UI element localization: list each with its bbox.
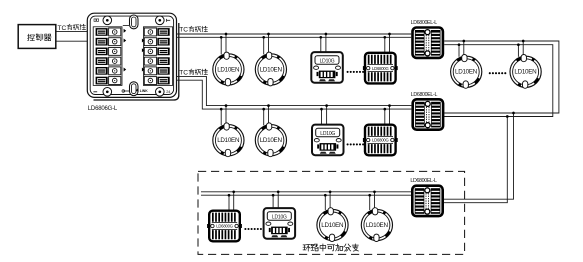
svg-text:LD6800EL-L: LD6800EL-L bbox=[411, 20, 438, 26]
wire: riser D6 left bbox=[263, 109, 265, 125]
junction dot (D5 right) bbox=[225, 104, 228, 107]
manual call point LD10G (CP2) bbox=[312, 125, 344, 156]
wire: drop to B1 right bbox=[389, 34, 391, 53]
wire: riser D5 right bbox=[225, 106, 227, 126]
terminal box LD6806G-L bbox=[87, 13, 179, 100]
wire: controller to terminal box, upper bbox=[56, 31, 87, 33]
continuation dots (row2) bbox=[347, 143, 365, 145]
wire: riser B2 right bbox=[389, 106, 391, 125]
smoke detector LD10EN (D7) bbox=[317, 208, 348, 242]
junction dot (B2 right) bbox=[388, 104, 391, 107]
smoke detector LD10EN (D2) bbox=[255, 52, 286, 86]
wire: row1 bus lower bbox=[177, 36, 412, 38]
svg-text:24: 24 bbox=[166, 90, 170, 94]
junction dot (D3 left) bbox=[458, 43, 461, 46]
junction dot (CP2 left) bbox=[320, 108, 323, 111]
junction dot (CP3 right) bbox=[277, 190, 280, 193]
junction dot (B1 left) bbox=[383, 36, 386, 39]
svg-text:TC: TC bbox=[179, 27, 188, 34]
wire: riser D6 right bbox=[268, 106, 270, 126]
isolator module LD6800G (B2) bbox=[363, 125, 398, 156]
manual call point LD10G (CP1) bbox=[311, 52, 343, 83]
junction dot (D2 left) bbox=[262, 36, 265, 39]
wire: drop to B1 left bbox=[384, 37, 386, 52]
wire: branch drop left (to U3 lower) bbox=[444, 117, 507, 203]
label TC有极性 (row1) bbox=[179, 26, 207, 33]
wire: drop to D3 left bbox=[458, 45, 460, 57]
junction dot (D7 right) bbox=[329, 190, 332, 193]
wire: drop to D2 left bbox=[263, 37, 265, 54]
junction dot (D2 right) bbox=[267, 33, 270, 36]
junction dot (branch lower) bbox=[506, 115, 509, 118]
junction dot (B3 left) bbox=[228, 194, 231, 197]
label 环路中可加分支 bbox=[303, 244, 358, 251]
svg-text:TC: TC bbox=[58, 25, 67, 32]
junction dot (branch upper) bbox=[512, 112, 515, 115]
smoke detector LD10EN (D8) bbox=[361, 208, 392, 242]
svg-text:LD6800EL-L: LD6800EL-L bbox=[410, 178, 437, 184]
wire: riser CP2 right bbox=[326, 106, 328, 125]
smoke detector LD10EN (D5) bbox=[213, 123, 244, 157]
smoke detector LD10EN (D6) bbox=[255, 123, 286, 157]
junction dot (D1 left) bbox=[220, 36, 223, 39]
wire: drop to CP1 left bbox=[320, 37, 322, 52]
junction dot (CP2 right) bbox=[325, 104, 328, 107]
svg-text:LD6800EL-L: LD6800EL-L bbox=[411, 92, 438, 98]
wire: riser D7 right bbox=[329, 192, 331, 210]
junction dot (D3 right) bbox=[462, 40, 465, 43]
wire: riser B3 right bbox=[233, 192, 235, 211]
wire: drop to D3 right bbox=[463, 41, 465, 57]
manual call point LD10G (CP3) bbox=[264, 208, 296, 239]
svg-text:LD6806G-L: LD6806G-L bbox=[88, 106, 118, 112]
junction dot (D7 left) bbox=[324, 194, 327, 197]
wire: riser CP2 left bbox=[321, 109, 323, 125]
wire: U1 right pair upper, around right side down to U2 bbox=[444, 41, 559, 113]
junction dot (D8 right) bbox=[373, 190, 376, 193]
loop module U3 LD6800EL-L bbox=[412, 186, 442, 216]
wire: riser D8 right bbox=[374, 192, 376, 210]
junction dot (CP1 left) bbox=[319, 36, 322, 39]
wire: riser D7 left bbox=[324, 195, 326, 210]
wire: drop to D1 left bbox=[220, 37, 222, 54]
wire: riser D8 left bbox=[369, 195, 371, 210]
wire: drop to D4 left bbox=[517, 45, 519, 57]
dashed box: branch region bbox=[198, 171, 465, 254]
wire: riser CP3 left bbox=[272, 195, 274, 208]
smoke detector LD10EN (D4) bbox=[510, 55, 541, 89]
junction dot (B3 right) bbox=[232, 190, 235, 193]
wire: riser B2 left bbox=[384, 109, 386, 125]
wire: row1 bus upper (TC有极性) bbox=[177, 33, 412, 35]
svg-text:LINK: LINK bbox=[140, 89, 148, 93]
wire: riser B3 left bbox=[228, 195, 230, 211]
svg-text:TC: TC bbox=[179, 69, 188, 76]
junction dot (D6 right) bbox=[267, 104, 270, 107]
junction dot (B2 left) bbox=[383, 108, 386, 111]
wire: drop to D4 right bbox=[522, 41, 524, 57]
wire: row2 feed upper bbox=[177, 76, 412, 105]
smoke detector LD10EN (D1) bbox=[213, 52, 244, 86]
loop module U1 LD6800EL-L bbox=[413, 28, 443, 58]
junction dot (D1 right) bbox=[225, 33, 228, 36]
junction dot (CP1 right) bbox=[325, 33, 328, 36]
wire: drop to D2 right bbox=[268, 34, 270, 54]
wire: controller to terminal box, lower bbox=[56, 40, 87, 42]
junction dot (B1 right) bbox=[388, 33, 391, 36]
smoke detector LD10EN (D3) bbox=[451, 55, 482, 89]
wire: drop to CP1 right bbox=[325, 34, 327, 52]
controller box 控制器 bbox=[18, 25, 56, 49]
junction dot (CP3 left) bbox=[272, 194, 275, 197]
wire: U1 right pair lower, around right side down to U2 bbox=[444, 45, 553, 117]
junction dot (D8 left) bbox=[368, 194, 371, 197]
label TC有极性 (row2) bbox=[179, 69, 207, 76]
wire: drop to D1 right bbox=[225, 34, 227, 54]
continuation dots (row1 right) bbox=[489, 72, 507, 74]
isolator module LD6800G (B1) bbox=[363, 53, 398, 84]
wire: row3 bus lower bbox=[201, 194, 411, 196]
junction dot (D5 left) bbox=[220, 108, 223, 111]
junction dot (D6 left) bbox=[262, 108, 265, 111]
continuation dots (row3) bbox=[244, 228, 262, 230]
junction dot (D4 right) bbox=[522, 40, 525, 43]
junction dot (D4 left) bbox=[517, 43, 520, 46]
wire: riser D5 left bbox=[220, 109, 222, 125]
wire: row2 feed lower bbox=[177, 80, 412, 109]
wire: riser CP3 right bbox=[277, 192, 279, 208]
wire: branch drop right (to U3 upper) bbox=[444, 113, 514, 199]
loop module U2 LD6800EL-L bbox=[413, 99, 443, 129]
continuation dots (row1) bbox=[347, 71, 365, 73]
label TC有极性 (controller output) bbox=[58, 24, 86, 32]
wire: row3 bus upper bbox=[201, 191, 411, 193]
isolator module LD6800G (B3) bbox=[207, 211, 242, 242]
